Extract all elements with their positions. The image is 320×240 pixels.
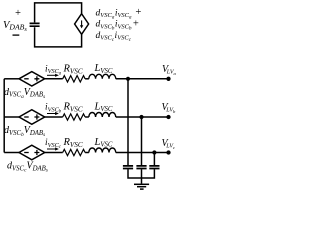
capacitor Ca plates — [123, 166, 133, 169]
capacitor Cb plates — [136, 166, 146, 169]
wire row b diamond to resistor — [45, 116, 63, 118]
wire row b inductor to terminal — [116, 116, 169, 118]
capacitor Cc plates — [149, 166, 159, 169]
current arrow row c — [47, 148, 56, 150]
terminal node row c — [166, 150, 170, 154]
left bus wire — [3, 79, 5, 153]
wire top loop of V_DABs source — [35, 3, 82, 47]
wire row c left — [4, 152, 19, 154]
ground bar 3 — [140, 188, 144, 190]
arrow inside current source — [81, 20, 83, 26]
ground bar 2 — [137, 186, 146, 188]
wire row b resistor to inductor — [85, 116, 89, 118]
svg-text:+: + — [132, 18, 139, 29]
wire row a inductor to terminal — [116, 78, 169, 80]
dependent voltage source diamond row a — [19, 72, 45, 87]
wire row c inductor to terminal — [116, 152, 169, 154]
plus sign inside diamond row a — [34, 76, 39, 81]
wire cap Cc to ground rail — [142, 169, 155, 178]
current arrow row a — [47, 74, 56, 76]
terminal node row a — [166, 77, 170, 81]
resistor R_VSC row a — [63, 76, 85, 82]
wire row a diamond to resistor — [45, 78, 63, 80]
wire row a left — [4, 78, 19, 80]
plus sign inside diamond row c — [34, 150, 39, 155]
wire drop from row b junction to cap Cb — [141, 117, 143, 165]
wire drop from row c junction to cap Cc — [153, 153, 155, 166]
junction node row a — [126, 77, 130, 81]
wire row c resistor to inductor — [85, 152, 89, 154]
ground bar 1 — [134, 183, 149, 185]
wire drop from row a junction to cap Ca — [127, 79, 129, 165]
capacitor C_DABs plates — [30, 23, 40, 26]
minus sign inside diamond row b — [24, 116, 29, 118]
wire row b left — [4, 116, 19, 118]
inductor L_VSC row c — [89, 148, 116, 153]
label minus of V_DABs — [13, 34, 20, 36]
wire cap Cb to ground rail and ground stub — [141, 169, 143, 183]
resistor R_VSC row c — [63, 149, 85, 155]
svg-text:VDABs: VDABs — [3, 20, 27, 33]
minus sign inside diamond row c — [24, 152, 29, 154]
plus sign inside diamond row b — [34, 114, 39, 119]
junction node row b — [139, 115, 143, 119]
resistor R_VSC row b — [63, 114, 85, 120]
minus sign inside diamond row a — [24, 78, 29, 80]
current arrow row b — [47, 113, 56, 115]
junction node row c — [152, 150, 156, 154]
terminal node row b — [166, 115, 170, 119]
svg-text:+: + — [14, 8, 21, 19]
svg-text:+: + — [135, 7, 142, 18]
inductor L_VSC row b — [89, 112, 116, 117]
dependent current source diamond — [75, 14, 89, 35]
dependent voltage source diamond row b — [19, 110, 45, 125]
dependent voltage source diamond row c — [19, 145, 45, 160]
wire row a resistor to inductor — [85, 78, 89, 80]
wire cap Ca to ground rail — [128, 169, 142, 178]
inductor L_VSC row a — [89, 74, 116, 79]
wire row c diamond to resistor — [45, 152, 63, 154]
